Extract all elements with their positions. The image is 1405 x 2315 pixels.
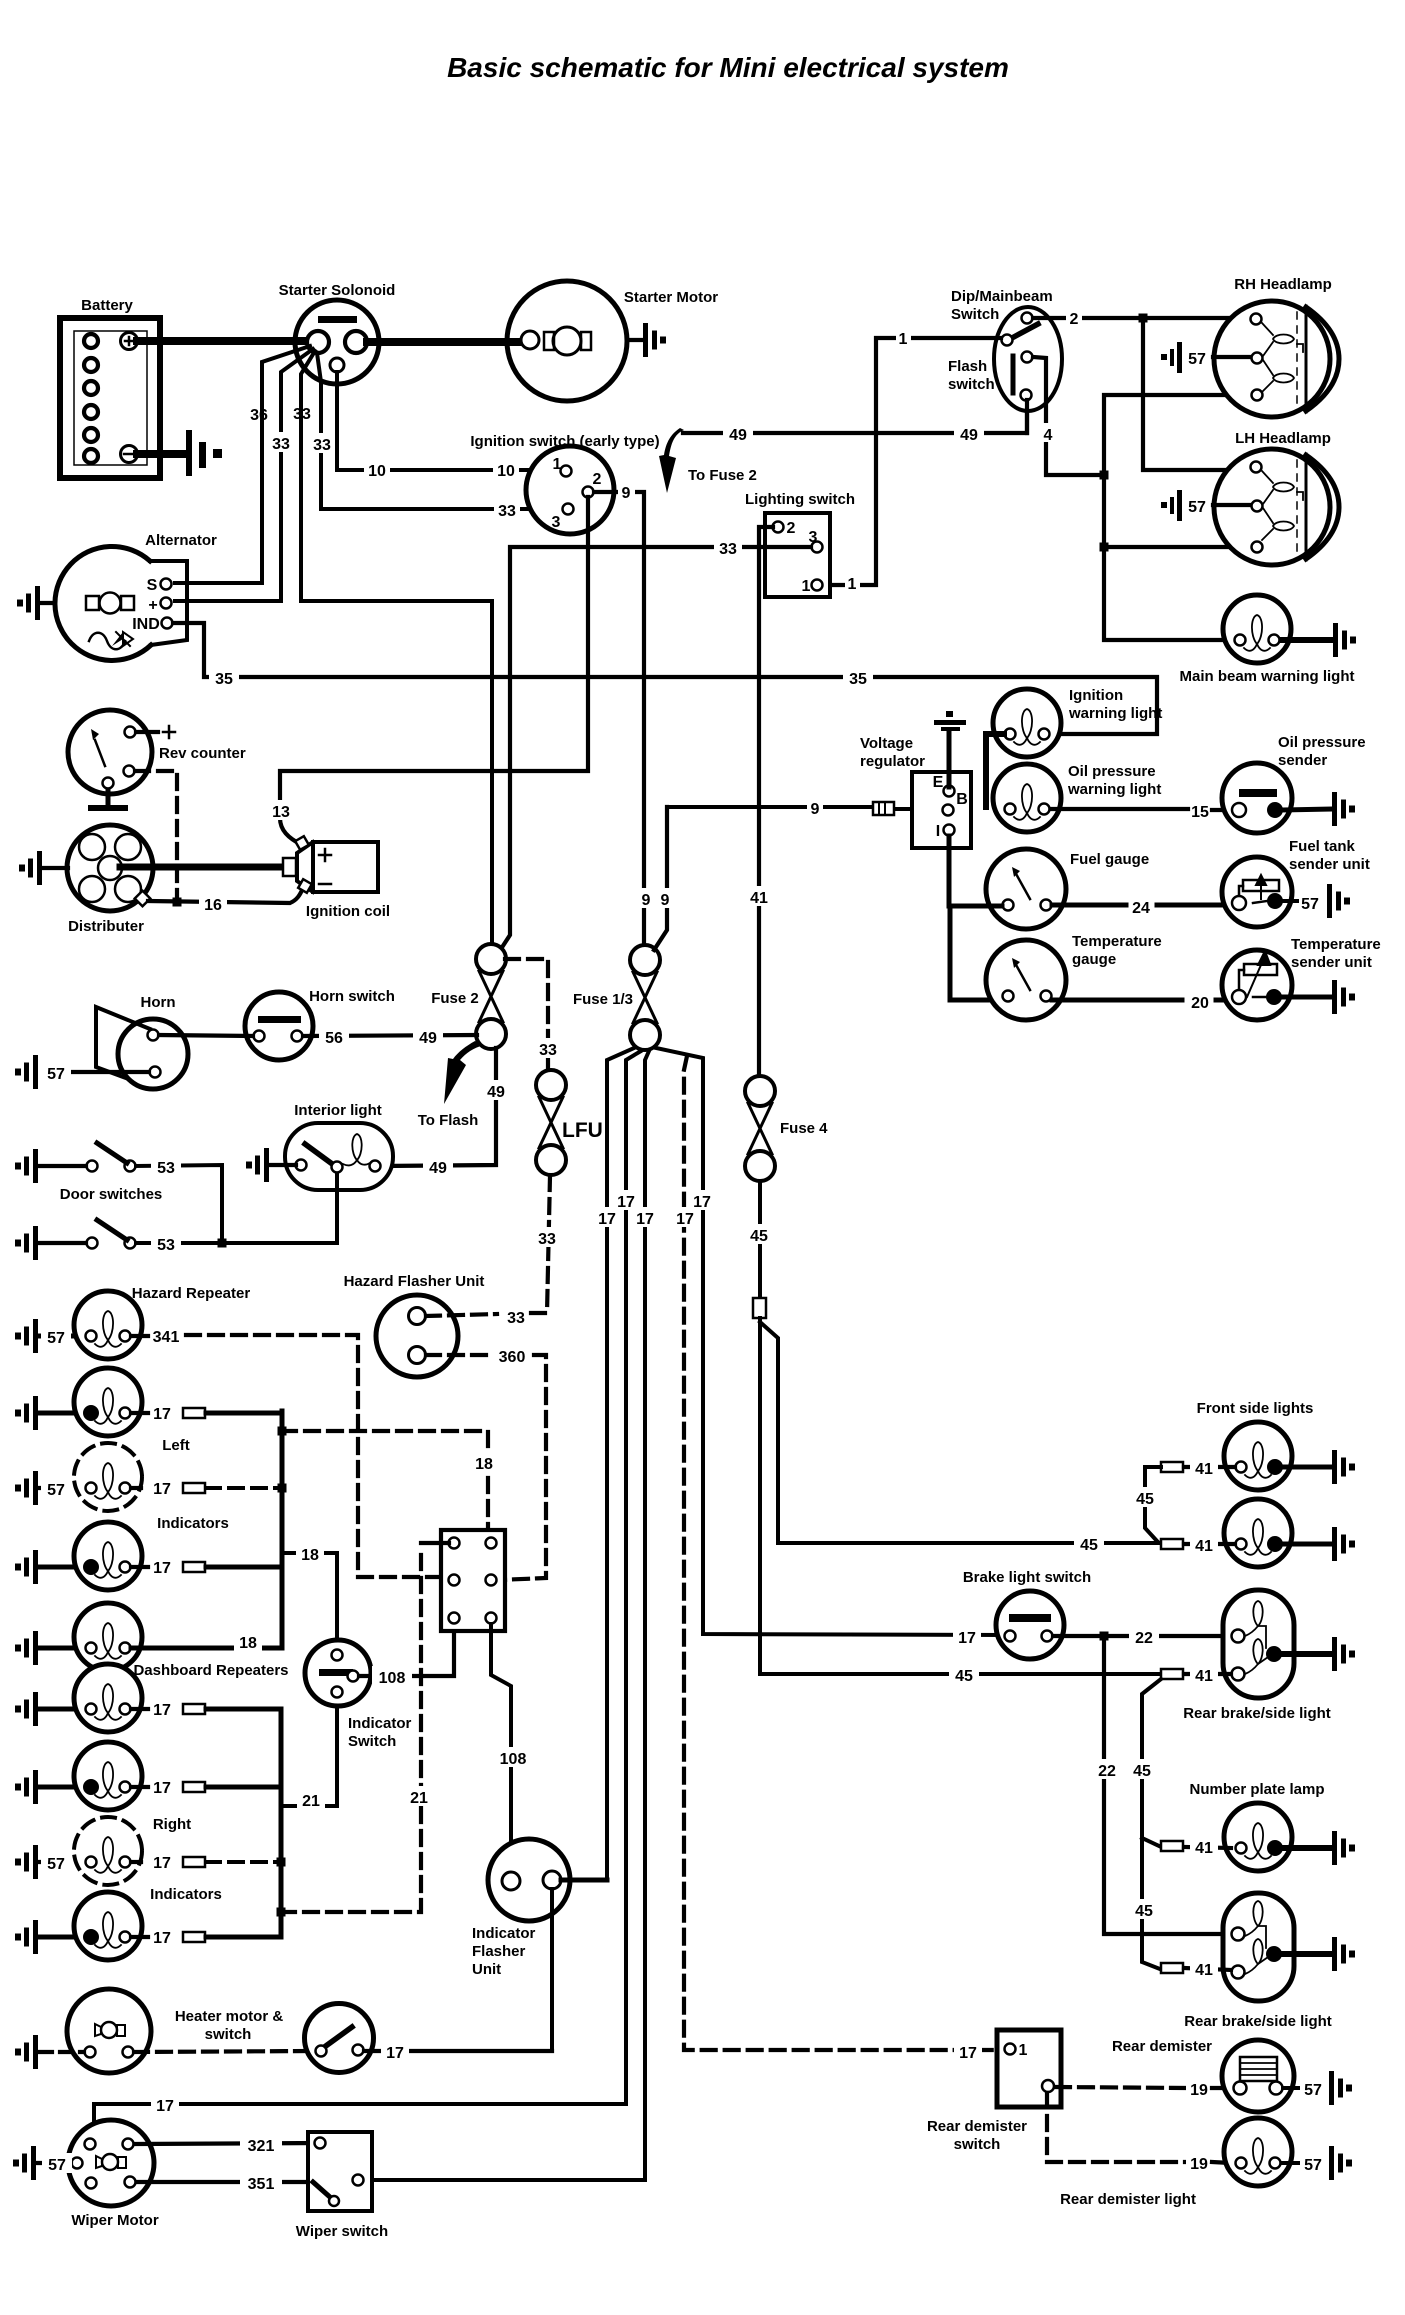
svg-text:33: 33 bbox=[507, 1310, 525, 1327]
interior light left terminal bbox=[296, 1160, 307, 1171]
wire 9 to voltage regulator B bbox=[667, 807, 941, 809]
svg-text:Temperature: Temperature bbox=[1072, 933, 1162, 950]
RH headlamp top terminal bbox=[1251, 314, 1262, 325]
oil pressure warning light bbox=[993, 764, 1061, 832]
label 41 bbox=[1190, 1534, 1218, 1555]
wire 4 flash switch to dip node bbox=[1033, 357, 1104, 475]
svg-text:I: I bbox=[936, 823, 940, 840]
rear left indicator lamp bbox=[74, 1603, 142, 1671]
ground (alternator) bbox=[17, 586, 40, 620]
svg-text:RH Headlamp: RH Headlamp bbox=[1234, 276, 1332, 293]
connector (rear right indicator) bbox=[183, 1932, 205, 1942]
wiper switch top-left terminal bbox=[315, 2138, 326, 2149]
RH headlamp bbox=[1214, 301, 1339, 417]
rear demister switch bbox=[997, 2030, 1061, 2107]
label 21 bbox=[405, 1786, 433, 1807]
wire 49 fuse 2 to interior light bbox=[382, 1048, 496, 1166]
wire 49 flash switch down bbox=[1025, 400, 1029, 433]
indicator flasher unit left terminal bbox=[502, 1872, 520, 1890]
svg-text:Indicator: Indicator bbox=[348, 1715, 412, 1732]
LH headlamp top terminal bbox=[1251, 462, 1262, 473]
svg-text:10: 10 bbox=[497, 463, 515, 480]
wire 45 front side light 1 bbox=[1145, 1467, 1161, 1541]
label 57 bbox=[41, 1062, 71, 1083]
door switch 1 bbox=[87, 1143, 136, 1172]
LH headlamp bbox=[1214, 449, 1339, 565]
svg-text:2: 2 bbox=[787, 520, 796, 537]
svg-text:33: 33 bbox=[539, 1042, 557, 1059]
connector (left repeater) bbox=[183, 1483, 205, 1493]
label 45 bbox=[744, 1224, 774, 1245]
svg-text:20: 20 bbox=[1191, 995, 1209, 1012]
svg-text:53: 53 bbox=[157, 1237, 175, 1254]
label 56 bbox=[319, 1026, 349, 1047]
ground (wiper motor) bbox=[13, 2146, 36, 2180]
ground (distributor) bbox=[19, 851, 42, 885]
relay terminal mid-left bbox=[449, 1575, 460, 1586]
wire 53 door switch 1 bbox=[136, 1165, 222, 1243]
svg-text:17: 17 bbox=[153, 1855, 171, 1872]
alternator S terminal bbox=[147, 577, 172, 594]
rear demister bbox=[1222, 2040, 1294, 2112]
RH headlamp middle terminal bbox=[1252, 353, 1263, 364]
connector (45 wire) bbox=[753, 1298, 766, 1318]
horn switch right terminal bbox=[292, 1031, 303, 1042]
wire 20 temperature gauge to sender bbox=[1052, 998, 1235, 1003]
svg-text:18: 18 bbox=[475, 1456, 493, 1473]
dashed wire 17 fuse 1/3 to rear demister switch bbox=[684, 1056, 997, 2050]
lighting switch bbox=[765, 513, 830, 597]
label 33 bbox=[533, 1227, 561, 1248]
svg-text:33: 33 bbox=[293, 406, 311, 423]
number plate lamp bbox=[1224, 1803, 1292, 1871]
dashed wire 19 continues bbox=[1212, 2162, 1231, 2163]
label 33 bbox=[494, 500, 520, 520]
wire starter motor to ground bbox=[627, 338, 642, 342]
label 57 bbox=[42, 2153, 72, 2174]
indicator flasher unit right terminal bbox=[543, 1871, 561, 1889]
dashed wire 360 hazard flasher unit to relay bbox=[426, 1353, 487, 1357]
svg-text:33: 33 bbox=[538, 1231, 556, 1248]
label 53 bbox=[151, 1233, 181, 1254]
svg-text:Rear demister light: Rear demister light bbox=[1060, 2191, 1196, 2208]
ground (right repeater) bbox=[15, 1845, 38, 1879]
label 45 bbox=[1127, 1759, 1157, 1780]
rear brake/side light 1 bbox=[1223, 1590, 1294, 1698]
interior light right terminal bbox=[370, 1161, 381, 1172]
label 35 bbox=[843, 667, 873, 688]
heater switch left terminal bbox=[316, 2046, 327, 2057]
alternator bbox=[55, 546, 187, 660]
svg-text:36: 36 bbox=[250, 407, 268, 424]
svg-text:switch: switch bbox=[205, 2026, 252, 2043]
svg-text:+: + bbox=[148, 597, 157, 614]
ground (main beam warning light) bbox=[1333, 623, 1356, 657]
svg-text:49: 49 bbox=[729, 427, 747, 444]
svg-text:18: 18 bbox=[239, 1635, 257, 1652]
wire RH headlamp ground bbox=[1213, 355, 1250, 359]
svg-text:22: 22 bbox=[1135, 1630, 1153, 1647]
junction bbox=[1100, 1632, 1109, 1641]
svg-text:1: 1 bbox=[1019, 2042, 1028, 2059]
svg-text:Main beam warning light: Main beam warning light bbox=[1179, 668, 1354, 685]
fuse 4 bbox=[745, 1076, 775, 1181]
connector (rear lamp 2, 41) bbox=[1161, 1963, 1183, 1973]
rev counter bbox=[68, 710, 152, 811]
label 49 bbox=[723, 423, 753, 444]
wire rear lamp 1 stub bbox=[1184, 1672, 1231, 1676]
label 1 bbox=[845, 573, 860, 593]
svg-text:45: 45 bbox=[1080, 1537, 1098, 1554]
wire 21 node to indicator switch bbox=[281, 1700, 337, 1806]
voltage regulator B terminal bbox=[943, 791, 968, 816]
label 33 bbox=[309, 433, 335, 454]
temperature sender unit bbox=[1222, 950, 1292, 1020]
heater motor right terminal bbox=[123, 2047, 134, 2058]
svg-text:Alternator: Alternator bbox=[145, 532, 217, 549]
ground (fuel tank sender) bbox=[1327, 884, 1350, 918]
junction bbox=[1100, 543, 1109, 552]
LH headlamp bottom terminal bbox=[1252, 542, 1263, 553]
svg-text:9: 9 bbox=[811, 801, 820, 818]
wire 33 solenoid to fuse 2 bbox=[301, 351, 492, 946]
junction bbox=[1139, 314, 1148, 323]
right repeater lamp (dashed) bbox=[74, 1817, 142, 1885]
wire 24 fuel gauge to fuel tank sender bbox=[1052, 903, 1235, 908]
ground (rear demister light) bbox=[1329, 2146, 1352, 2180]
wire 41 lighting switch 2 to fuse 4 bbox=[759, 527, 773, 1075]
label 53 bbox=[151, 1156, 181, 1177]
svg-text:33: 33 bbox=[719, 541, 737, 558]
svg-text:To Fuse 2: To Fuse 2 bbox=[688, 467, 757, 484]
wiper switch right terminal bbox=[353, 2175, 364, 2186]
svg-text:10: 10 bbox=[368, 463, 386, 480]
wire left repeater ground (dashed) bbox=[40, 1486, 74, 1490]
wire rev counter to 16 line (dashed) bbox=[135, 771, 177, 897]
svg-text:45: 45 bbox=[1133, 1763, 1151, 1780]
wire front side light 2 to ground bbox=[1284, 1542, 1330, 1547]
svg-text:Rear brake/side light: Rear brake/side light bbox=[1183, 1705, 1331, 1722]
wire front side light 1 terminal stub bbox=[1184, 1465, 1235, 1469]
ground (interior light) bbox=[246, 1148, 269, 1182]
solenoid left terminal bbox=[307, 331, 329, 353]
wiper motor terminal bottom-right bbox=[125, 2177, 136, 2188]
ground (oil pressure sender) bbox=[1332, 792, 1355, 826]
indicator switch right terminal bbox=[348, 1671, 359, 1682]
wire rear demister to ground bbox=[1283, 2086, 1298, 2090]
wire wiper motor ground bbox=[38, 2161, 71, 2165]
indicator switch bbox=[305, 1640, 371, 1706]
svg-text:Switch: Switch bbox=[348, 1733, 396, 1750]
label 49 bbox=[423, 1156, 453, 1177]
label 17 bbox=[954, 2041, 982, 2062]
svg-text:45: 45 bbox=[955, 1668, 973, 1685]
label 17 bbox=[381, 2041, 409, 2062]
svg-text:Horn switch: Horn switch bbox=[309, 988, 395, 1005]
svg-text:Dip/Mainbeam: Dip/Mainbeam bbox=[951, 288, 1053, 305]
dashed wire 33 fuse 2 to LFU bbox=[505, 959, 548, 1070]
svg-text:Oil pressure: Oil pressure bbox=[1278, 734, 1366, 751]
svg-text:sender unit: sender unit bbox=[1289, 856, 1370, 873]
ground (front side light 2) bbox=[1332, 1527, 1355, 1561]
svg-text:108: 108 bbox=[379, 1670, 406, 1687]
label 9 bbox=[638, 888, 654, 909]
wire temperature sender to ground bbox=[1282, 995, 1330, 1000]
wire rear right indicator ground bbox=[40, 1935, 74, 1940]
relay terminal mid-right bbox=[486, 1575, 497, 1586]
label 49 bbox=[481, 1080, 511, 1101]
interior light bbox=[285, 1123, 393, 1190]
svg-text:53: 53 bbox=[157, 1160, 175, 1177]
svg-text:Flash: Flash bbox=[948, 358, 987, 375]
svg-text:Number plate lamp: Number plate lamp bbox=[1189, 1781, 1324, 1798]
main beam warning light bbox=[1223, 595, 1291, 663]
wire 15 oil pressure warning light to sender bbox=[1051, 809, 1232, 810]
svg-text:22: 22 bbox=[1098, 1763, 1116, 1780]
svg-text:Starter Motor: Starter Motor bbox=[624, 289, 718, 306]
voltage regulator E terminal bbox=[933, 774, 955, 797]
svg-text:49: 49 bbox=[429, 1160, 447, 1177]
svg-text:2: 2 bbox=[1070, 311, 1079, 328]
hazard flasher unit top terminal bbox=[409, 1308, 426, 1325]
svg-text:57: 57 bbox=[47, 1066, 65, 1083]
ground (dashboard repeater 1) bbox=[15, 1692, 38, 1726]
ground (hazard repeater) bbox=[15, 1319, 38, 1353]
battery bbox=[60, 318, 160, 478]
svg-text:Fuse 4: Fuse 4 bbox=[780, 1120, 828, 1137]
wire 9 voltage regulator to fuse 1/3 bbox=[654, 807, 667, 950]
ground (voltage regulator E) bbox=[934, 711, 966, 731]
wire 49 to fuse 2 (broken with arrow) bbox=[683, 402, 1027, 433]
svg-text:LH Headlamp: LH Headlamp bbox=[1235, 430, 1331, 447]
wire oil pressure sender to ground bbox=[1283, 809, 1330, 810]
wire rear brake/side light 1 to ground bbox=[1282, 1651, 1330, 1657]
dashed wire heater motor to switch bbox=[134, 2051, 315, 2052]
svg-text:Wiper Motor: Wiper Motor bbox=[71, 2212, 159, 2229]
label 21 bbox=[297, 1789, 325, 1810]
wire rev counter + bbox=[136, 726, 175, 738]
svg-text:S: S bbox=[147, 577, 158, 594]
label 16 bbox=[199, 893, 227, 914]
RH headlamp bottom terminal bbox=[1252, 390, 1263, 401]
wire number plate lamp to ground bbox=[1284, 1845, 1330, 1851]
voltage regulator I terminal bbox=[936, 823, 955, 840]
svg-text:17: 17 bbox=[153, 1481, 171, 1498]
wire 33 solenoid to alternator + bbox=[175, 349, 313, 601]
svg-text:41: 41 bbox=[1195, 1962, 1213, 1979]
label 57 bbox=[41, 1326, 71, 1347]
temperature gauge bbox=[986, 940, 1066, 1020]
ground (indicator 2) bbox=[15, 1550, 38, 1584]
svg-text:Indicators: Indicators bbox=[150, 1886, 222, 1903]
label 41 bbox=[745, 886, 773, 907]
svg-text:regulator: regulator bbox=[860, 753, 925, 770]
svg-text:33: 33 bbox=[313, 437, 331, 454]
svg-text:17: 17 bbox=[153, 1930, 171, 1947]
label 2 bbox=[1066, 308, 1082, 328]
svg-text:Switch: Switch bbox=[951, 306, 999, 323]
horn switch bbox=[245, 992, 313, 1060]
indicator flasher unit bbox=[488, 1839, 570, 1921]
label 41 bbox=[1190, 1664, 1218, 1685]
label 57 bbox=[41, 1852, 71, 1873]
dip switch lever bbox=[1010, 324, 1038, 339]
relay terminal bottom-left bbox=[449, 1613, 460, 1624]
wire 45 fuse 4 down bbox=[758, 1183, 762, 1300]
wire E to top ground bbox=[947, 731, 952, 787]
wire 10 solenoid to ignition switch 1 bbox=[337, 372, 561, 470]
wire 16 distributor to coil - bbox=[148, 888, 303, 903]
relay terminal top-right bbox=[486, 1538, 497, 1549]
wire front side light 2 terminal stub bbox=[1184, 1542, 1235, 1546]
relay terminal bottom-right bbox=[486, 1613, 497, 1624]
svg-text:LFU: LFU bbox=[562, 1119, 603, 1142]
svg-text:49: 49 bbox=[419, 1030, 437, 1047]
wire dashboard repeater 2 to node bbox=[131, 1785, 281, 1789]
wire 45 branch to number plate lamp bbox=[1142, 1838, 1159, 1846]
wire 108 indicator switch to relay bbox=[359, 1625, 454, 1676]
svg-text:57: 57 bbox=[1301, 896, 1319, 913]
label 33 bbox=[534, 1038, 562, 1059]
wire 18 rear left indicator to node bbox=[131, 1646, 282, 1651]
wire rear lamp 2 stub bbox=[1184, 1968, 1231, 1970]
svg-text:Front side lights: Front side lights bbox=[1197, 1400, 1314, 1417]
wire 2 dip switch to headlamps main bbox=[1033, 318, 1250, 470]
dashed wire heater ground to motor bbox=[40, 2050, 84, 2054]
label 19 bbox=[1186, 2078, 1212, 2099]
svg-text:gauge: gauge bbox=[1072, 951, 1116, 968]
lighting switch pin 2 bbox=[773, 520, 796, 537]
label 17 bbox=[151, 2094, 179, 2115]
wire 53 door switch 2 to interior light bbox=[136, 1174, 337, 1243]
heater motor left terminal bbox=[85, 2047, 96, 2058]
wire I to fuel gauge bbox=[949, 836, 1002, 906]
wire dashboard repeater 1 to node bbox=[131, 1707, 281, 1711]
connector (front side light 2) bbox=[1161, 1539, 1183, 1549]
oil pressure sender bbox=[1222, 763, 1292, 833]
ground (rear demister) bbox=[1329, 2071, 1352, 2105]
dip switch left terminal bbox=[1002, 335, 1013, 346]
fuse 1/3 bbox=[630, 945, 660, 1050]
front side light 1 bbox=[1224, 1422, 1292, 1490]
label 17 bbox=[688, 1190, 716, 1211]
svg-text:Ignition: Ignition bbox=[1069, 687, 1123, 704]
wire 17 fuse 1/3 to brake light switch bbox=[656, 1048, 1004, 1635]
lighting switch pin 3 bbox=[809, 529, 823, 553]
svg-text:Dashboard Repeaters: Dashboard Repeaters bbox=[133, 1662, 288, 1679]
label 45 bbox=[1074, 1533, 1104, 1554]
connector (front left indicator) bbox=[183, 1408, 205, 1418]
connector (dashboard repeater 1) bbox=[183, 1704, 205, 1714]
left indicators node vertical bbox=[280, 1411, 285, 1648]
distributor bbox=[67, 825, 153, 911]
ground (door switch 1) bbox=[15, 1149, 38, 1183]
svg-text:17: 17 bbox=[153, 1406, 171, 1423]
svg-text:57: 57 bbox=[48, 2157, 66, 2174]
fuse 2 bbox=[476, 944, 506, 1049]
label 41 bbox=[1190, 1958, 1218, 1979]
connector on 9 wire bbox=[873, 802, 894, 815]
svg-text:Rev counter: Rev counter bbox=[159, 745, 246, 762]
ignition switch pin 3 bbox=[552, 504, 574, 532]
right indicators node vertical bbox=[279, 1709, 284, 1937]
svg-text:57: 57 bbox=[47, 1856, 65, 1873]
svg-text:E: E bbox=[933, 774, 944, 791]
label 22 bbox=[1092, 1759, 1122, 1780]
svg-text:switch: switch bbox=[948, 376, 995, 393]
rear demister switch output terminal bbox=[1042, 2080, 1054, 2092]
svg-text:3: 3 bbox=[809, 529, 818, 546]
svg-text:360: 360 bbox=[499, 1349, 526, 1366]
connector (number plate lamp) bbox=[1161, 1841, 1183, 1851]
front side light 2 bbox=[1224, 1499, 1292, 1567]
svg-text:17: 17 bbox=[959, 2045, 977, 2062]
ground (LH headlamp) bbox=[1161, 490, 1182, 521]
rear right indicator lamp bbox=[74, 1892, 142, 1960]
wiper motor terminal bottom-left bbox=[86, 2178, 97, 2189]
svg-text:Ignition coil: Ignition coil bbox=[306, 903, 390, 920]
svg-text:17: 17 bbox=[153, 1702, 171, 1719]
label 17 bbox=[593, 1207, 621, 1228]
label 1 bbox=[896, 328, 911, 348]
battery + terminal bbox=[121, 333, 138, 350]
svg-text:Left: Left bbox=[162, 1437, 190, 1454]
ground (dashboard repeater 2) bbox=[15, 1770, 38, 1804]
ground (front left indicator) bbox=[15, 1396, 38, 1430]
ground (rear left indicator) bbox=[15, 1631, 38, 1665]
svg-text:17: 17 bbox=[156, 2098, 174, 2115]
connector (front side light 1) bbox=[1161, 1462, 1183, 1472]
horn lower terminal bbox=[150, 1067, 161, 1078]
svg-text:41: 41 bbox=[750, 890, 768, 907]
rear brake/side light 2 bbox=[1223, 1893, 1294, 2001]
svg-text:45: 45 bbox=[750, 1228, 768, 1245]
svg-text:321: 321 bbox=[248, 2138, 275, 2155]
svg-text:Flasher: Flasher bbox=[472, 1943, 526, 1960]
label 351 bbox=[240, 2172, 282, 2193]
label 45 bbox=[1130, 1487, 1160, 1508]
svg-text:33: 33 bbox=[498, 503, 516, 520]
alternator IND terminal bbox=[132, 616, 172, 633]
svg-text:17: 17 bbox=[958, 1630, 976, 1647]
svg-text:IND: IND bbox=[132, 616, 160, 633]
wire rear right indicator to node bbox=[131, 1935, 281, 1939]
label 10 bbox=[493, 460, 519, 480]
wire 9 ignition switch to fuse 1/3 bbox=[594, 492, 644, 946]
ground (door switch 2) bbox=[15, 1226, 38, 1260]
svg-text:Rear brake/side light: Rear brake/side light bbox=[1184, 2013, 1332, 2030]
horn switch left terminal bbox=[254, 1031, 265, 1042]
svg-text:35: 35 bbox=[849, 671, 867, 688]
arrow to fuse 2 bbox=[659, 428, 684, 493]
connector (dashboard repeater 2) bbox=[183, 1782, 205, 1792]
svg-text:Fuse 2: Fuse 2 bbox=[431, 990, 479, 1007]
solenoid right terminal bbox=[345, 331, 367, 353]
label 49 bbox=[954, 423, 984, 444]
svg-text:B: B bbox=[956, 791, 968, 808]
label 49 bbox=[413, 1026, 443, 1047]
heater switch bbox=[305, 2004, 374, 2073]
svg-text:warning light: warning light bbox=[1067, 781, 1161, 798]
wire 18 node to indicator switch bbox=[282, 1553, 337, 1660]
label 4 bbox=[1040, 423, 1057, 444]
svg-text:To Flash: To Flash bbox=[418, 1112, 479, 1129]
wire 1 lighting switch to dip switch bbox=[823, 338, 1001, 585]
wire battery - to ground bbox=[137, 450, 184, 458]
wire to flash (arrow) bbox=[444, 1041, 484, 1104]
svg-text:341: 341 bbox=[153, 1329, 180, 1346]
svg-text:Oil pressure: Oil pressure bbox=[1068, 763, 1156, 780]
